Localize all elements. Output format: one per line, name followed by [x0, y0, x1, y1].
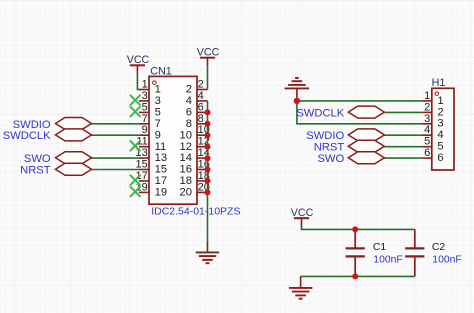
CN1 pin 9 stub	[139, 134, 149, 136]
wire ground to H1 pin 1	[297, 100, 422, 102]
ground symbol (caps)	[289, 276, 313, 298]
svg-text:9: 9	[142, 124, 148, 136]
CN1 pin 14 numbers	[180, 147, 210, 164]
CN1 pin 18 stub	[197, 180, 208, 182]
CN1 pin 15 stub	[139, 169, 149, 171]
svg-text:5: 5	[424, 136, 430, 148]
svg-text:2: 2	[186, 84, 192, 96]
CN1 pin 10 stub	[197, 134, 208, 136]
svg-text:5: 5	[155, 107, 161, 119]
CN1 pin 6 stub	[197, 111, 208, 113]
H1 pin 1 indicator circle	[435, 92, 439, 96]
CN1 pin 8 stub	[197, 123, 208, 125]
CN1 pin 16 numbers	[180, 159, 210, 176]
H1 pin 3 numbers	[424, 113, 443, 130]
capacitor C2	[405, 229, 424, 276]
svg-text:VCC: VCC	[127, 54, 150, 66]
svg-text:SWDIO: SWDIO	[13, 119, 51, 131]
net flag SWO (right)	[348, 152, 384, 164]
CN1 pin 1 stub	[139, 89, 149, 91]
junction dot at ground/H1 node	[294, 98, 300, 104]
wire NRST to CN1	[91, 169, 139, 171]
H1 pin 2 numbers	[424, 101, 443, 118]
svg-text:6: 6	[186, 107, 192, 119]
svg-text:6: 6	[437, 152, 443, 164]
svg-text:NRST: NRST	[314, 142, 345, 154]
svg-text:11: 11	[155, 141, 167, 153]
svg-text:100nF: 100nF	[373, 254, 402, 265]
svg-text:19: 19	[155, 187, 167, 199]
svg-text:SWDCLK: SWDCLK	[3, 130, 51, 142]
CN1 pin 2 stub	[197, 89, 208, 91]
wire ground to H1 pin 3	[297, 101, 422, 124]
wire SWO to CN1	[91, 157, 139, 159]
svg-text:1: 1	[437, 95, 443, 107]
svg-text:4: 4	[198, 90, 204, 102]
svg-text:2: 2	[198, 79, 204, 91]
svg-text:SWDCLK: SWDCLK	[296, 107, 344, 119]
CN1 pin 15 numbers	[136, 159, 168, 176]
CN1 pin 11 numbers	[136, 136, 166, 153]
CN1 pin 8 numbers	[186, 113, 204, 130]
power symbol VCC (left of CN1)	[127, 54, 150, 74]
svg-text:1: 1	[424, 90, 430, 102]
net flag SWDCLK (right)	[348, 106, 384, 118]
svg-text:100nF: 100nF	[432, 254, 461, 265]
power symbol VCC (above CN1 pin 2)	[197, 46, 220, 66]
svg-text:8: 8	[186, 118, 192, 130]
CN1 pin 1 indicator circle	[153, 81, 157, 85]
junction dots on GND bus	[205, 109, 211, 195]
CN1 pin 18 numbers	[180, 170, 210, 187]
svg-text:C2: C2	[432, 242, 446, 253]
H1 pin 5 stub	[422, 146, 432, 148]
CN1 pin 20 stub	[197, 191, 208, 193]
CN1 pin 4 numbers	[186, 90, 204, 107]
H1 pin 1 stub	[422, 100, 432, 102]
CN1 pin 10 numbers	[180, 124, 210, 141]
net flag NRST (right)	[348, 140, 384, 152]
svg-text:CN1: CN1	[150, 66, 172, 78]
capacitor C1	[346, 229, 365, 276]
CN1 pin 5 numbers	[142, 101, 161, 118]
svg-text:10: 10	[180, 129, 192, 141]
wire SWDCLK to CN1	[91, 134, 139, 136]
CN1 pin 17 numbers	[136, 170, 168, 187]
svg-text:3: 3	[437, 118, 443, 130]
svg-text:3: 3	[424, 113, 430, 125]
svg-text:7: 7	[142, 113, 148, 125]
CN1 pin 3 numbers	[142, 90, 161, 107]
svg-text:VCC: VCC	[197, 46, 220, 58]
svg-text:13: 13	[155, 152, 167, 164]
wire SWDCLK to H1 pin 2	[384, 111, 422, 113]
CN1 pin 13 stub	[139, 157, 149, 159]
connector CN1 body	[149, 76, 197, 204]
power symbol VCC (caps)	[291, 207, 314, 227]
svg-text:8: 8	[198, 113, 204, 125]
net flag SWDIO (right)	[348, 129, 384, 141]
svg-text:1: 1	[155, 84, 161, 96]
svg-text:NRST: NRST	[20, 165, 51, 177]
svg-text:SWDIO: SWDIO	[306, 130, 344, 142]
CN1 pin 1 numbers	[142, 79, 161, 96]
H1 pin 6 numbers	[424, 147, 443, 164]
CN1 pin 7 stub	[139, 123, 149, 125]
C1 labels	[373, 242, 403, 265]
net flag SWDCLK (left)	[56, 129, 92, 141]
wire SWDIO to CN1	[91, 123, 139, 125]
svg-text:5: 5	[142, 101, 148, 113]
H1 pin 5 numbers	[424, 136, 443, 153]
svg-text:4: 4	[424, 124, 430, 136]
CN1 pin 19 stub	[139, 191, 149, 193]
wire SWO to H1 pin 6	[384, 157, 422, 159]
wire down to ground (caps)	[300, 276, 302, 278]
no-connect cross pin 17	[130, 175, 141, 186]
no-connect cross pin 19	[130, 186, 141, 197]
H1 pin 4 stub	[422, 134, 432, 136]
wire VCC to CN1 pin 1	[137, 74, 140, 90]
svg-text:16: 16	[180, 164, 192, 176]
svg-text:4: 4	[437, 129, 443, 141]
svg-text:17: 17	[136, 170, 148, 182]
H1 pin 6 stub	[422, 157, 432, 159]
wire VCC to CN1 pin 2	[207, 66, 209, 89]
svg-text:SWO: SWO	[317, 153, 344, 165]
svg-text:9: 9	[155, 129, 161, 141]
svg-text:15: 15	[155, 164, 167, 176]
no-connect cross pin 3	[130, 95, 141, 106]
svg-text:VCC: VCC	[291, 207, 314, 219]
svg-text:4: 4	[186, 95, 192, 107]
svg-text:20: 20	[180, 187, 192, 199]
svg-text:SWO: SWO	[24, 153, 51, 165]
wire SWDIO to H1 pin 4	[384, 134, 422, 136]
CN1 pin 6 numbers	[186, 101, 204, 118]
wire VCC rail (top)	[302, 226, 415, 229]
svg-text:12: 12	[180, 141, 192, 153]
junction dot C1 top	[352, 226, 358, 232]
H1 pin 2 stub	[422, 111, 432, 113]
svg-text:1: 1	[142, 79, 148, 91]
CN1 pin 12 stub	[197, 146, 208, 148]
CN1 pin 7 numbers	[142, 113, 161, 130]
ground symbol below CN1	[196, 241, 219, 263]
C2 labels	[432, 242, 462, 265]
svg-text:14: 14	[180, 152, 192, 164]
junction dot C1 bottom	[352, 273, 358, 279]
svg-text:6: 6	[198, 101, 204, 113]
svg-text:H1: H1	[432, 77, 446, 89]
CN1 pin 12 numbers	[180, 136, 210, 153]
svg-text:5: 5	[437, 141, 443, 153]
svg-text:2: 2	[424, 101, 430, 113]
H1 pin 4 numbers	[424, 124, 443, 141]
CN1 pin 4 stub	[197, 100, 208, 102]
CN1 pin 17 stub	[139, 180, 149, 182]
CN1 pin 3 stub	[139, 100, 149, 102]
svg-text:17: 17	[155, 175, 167, 187]
svg-text:C1: C1	[373, 242, 387, 253]
CN1 pin 19 numbers	[136, 181, 168, 198]
CN1 pin 16 stub	[197, 169, 208, 171]
svg-text:3: 3	[155, 95, 161, 107]
connector H1 body	[432, 88, 454, 170]
CN1 pin 5 stub	[139, 111, 149, 113]
wire GND bus (CN1 pins 4-20)	[207, 101, 209, 241]
CN1 pin 2 numbers	[186, 79, 204, 96]
H1 pin 3 stub	[422, 123, 432, 125]
svg-text:3: 3	[142, 90, 148, 102]
no-connect cross pin 5	[130, 106, 141, 117]
svg-text:6: 6	[424, 147, 430, 159]
net flag SWDIO (left)	[56, 118, 92, 130]
CN1 pin 11 stub	[139, 146, 149, 148]
wire NRST to H1 pin 5	[384, 146, 422, 148]
net flag SWO (left)	[56, 152, 92, 164]
wire GND rail (bottom)	[301, 275, 415, 277]
CN1 pin 9 numbers	[142, 124, 161, 141]
svg-text:18: 18	[180, 175, 192, 187]
no-connect cross pin 11	[130, 141, 141, 152]
svg-text:IDC2.54-01-10PZS: IDC2.54-01-10PZS	[151, 205, 240, 217]
svg-text:2: 2	[437, 106, 443, 118]
CN1 pin 14 stub	[197, 157, 208, 159]
svg-text:7: 7	[155, 118, 161, 130]
H1 pin 1 numbers	[424, 90, 443, 107]
CN1 pin 13 numbers	[136, 147, 168, 164]
CN1 pin 20 numbers	[180, 181, 210, 198]
net flag NRST (left)	[56, 163, 92, 175]
ground symbol above H1 wires	[285, 78, 310, 101]
